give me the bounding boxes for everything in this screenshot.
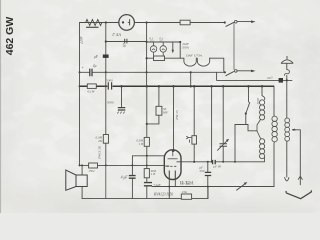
capacitor C3 (smoothing): [103, 55, 109, 58]
choke L1 hump 1: [184, 58, 196, 66]
svg-text:5000: 5000: [106, 79, 113, 83]
wire: mains cord lead (bottom): [237, 70, 251, 72]
svg-text:AW: AW: [148, 40, 154, 44]
svg-text:5000: 5000: [107, 101, 114, 105]
wire: band switch drop: [248, 86, 250, 102]
wire: AF cap branch: [131, 156, 133, 199]
capacitor C1 (series, filament tap): [125, 39, 127, 44]
antenna (light-antenna dome): [281, 56, 293, 63]
wire: lamp block top: [147, 41, 181, 43]
coil L4 winding: [285, 118, 290, 141]
svg-text:μF 90: μF 90: [213, 165, 221, 169]
wire: filament tap: [106, 41, 147, 43]
svg-text:1 B: 1 B: [139, 142, 143, 146]
svg-text:4 μF: 4 μF: [121, 176, 128, 180]
capacitor C12 (bypass): [205, 172, 211, 175]
wire: bypass cap branch: [207, 162, 209, 199]
svg-text:DAF U73A: DAF U73A: [185, 53, 203, 57]
coil L2 lower winding: [260, 139, 265, 162]
lamp La2: [160, 42, 166, 58]
svg-text:Dẇ: Dẇ: [181, 190, 187, 194]
wire: tuning arm to earth plug: [293, 130, 301, 185]
svg-text:VY 2: VY 2: [112, 32, 122, 37]
wire: node B vertical: [105, 23, 107, 166]
wire: coupling-cap branch: [147, 86, 159, 124]
wire: heater return rail: [80, 71, 225, 73]
antenna socket fork: [285, 177, 289, 181]
svg-text:1 B: 1 B: [151, 172, 155, 176]
resistor R10 (box, speaker line): [89, 163, 98, 168]
wire: coil L3 top lead: [273, 86, 275, 116]
wire: mains top rail (right of VY2): [134, 22, 224, 24]
wire: anode lead to VCL11 top: [173, 86, 175, 150]
wire: node C vertical: [146, 23, 148, 87]
wire: mains cord lead (top): [237, 21, 251, 23]
resistor R4 (box, ground rail): [87, 84, 96, 89]
capacitor C6 (coupling box): [156, 106, 162, 115]
wire: stub to ground capacitor: [121, 86, 123, 107]
junction dots (all nodes): [79, 21, 288, 187]
capacitor C5 + ground: [117, 108, 125, 114]
resistor R5 (box, 0,3M): [103, 135, 108, 144]
svg-text:462 GW: 462 GW: [4, 17, 16, 56]
wire: link to ground rail: [190, 72, 192, 86]
wire: grid-leak chain vertical: [146, 86, 148, 182]
wire: cathode line: [152, 186, 274, 188]
svg-text:/1091: /1091: [181, 46, 190, 50]
choke L1 hump 2: [197, 58, 209, 66]
wire: mains top rail (left of VY2): [80, 22, 119, 24]
resistor R8 (box, cathode): [144, 169, 149, 178]
trimmer capacitor C7: [217, 139, 228, 150]
wire: detector branch: [211, 86, 213, 162]
svg-text:500: 500: [200, 169, 205, 173]
resistor R3 (box, lamp shunt): [154, 56, 165, 61]
earth plug arrow: [298, 176, 302, 179]
resistor R6 (box, grid leak): [144, 137, 149, 146]
wire: antenna feed line: [217, 72, 292, 80]
wire: coil L2 top lead: [261, 86, 263, 96]
svg-text:μμ5: μμ5: [268, 75, 273, 79]
resistor R7 (box) + grid clip: [192, 136, 197, 144]
wire: VCL11 filament leads: [169, 179, 175, 198]
capacitor C11 (series, detector line): [213, 160, 216, 164]
wire: detector line: [181, 161, 265, 163]
capacitor C8 (antenna series, block): [279, 78, 283, 83]
resistor R9 (box, "Dw"): [181, 194, 191, 199]
rectifier tube VY2: [119, 15, 135, 31]
capacitor C9 (AF, 4uF): [129, 176, 136, 179]
svg-text:10-180: 10-180: [181, 181, 190, 185]
switch S1/S2 coupling link: [233, 23, 235, 70]
capacitor C4 (series, rail): [108, 82, 111, 89]
coil L2 section link: [257, 119, 261, 139]
potentiometer arrow (regen control): [236, 184, 245, 191]
earth (wide V symbol): [286, 190, 312, 198]
svg-text:4W: 4W: [98, 139, 103, 143]
wire: tap to coil L2: [235, 125, 257, 131]
svg-text:PW13 5B: PW13 5B: [98, 146, 102, 160]
capacitor C10 (cathode elco): [144, 183, 152, 186]
wire: output/speaker line: [80, 164, 165, 166]
lamp La1: [150, 42, 156, 58]
wire: grid line into VCL11: [132, 155, 164, 157]
svg-text:0W2: 0W2: [89, 169, 95, 173]
switch S2 (mains, bottom pole): [226, 70, 238, 76]
svg-text:BV4123 Ä.50: BV4123 Ä.50: [154, 192, 173, 197]
tube VCL11 (output): [164, 150, 181, 180]
svg-text:5μ: 5μ: [123, 44, 127, 48]
capacitor C2 (electrolytic, series): [90, 69, 92, 77]
wire: speaker leads: [81, 165, 83, 198]
svg-text:00F: 00F: [163, 110, 168, 114]
wire: coil L3 bottom lead: [273, 143, 275, 186]
wire: lamp block bottom / heater feed: [147, 57, 181, 59]
svg-text:220V: 220V: [79, 35, 83, 44]
svg-text:+4μF: +4μF: [153, 183, 162, 187]
antenna lead curl: [285, 70, 290, 76]
wire: antenna column to coil L4: [286, 63, 288, 177]
page edge shadow line: [0, 0, 1, 213]
coil L3 winding: [272, 116, 277, 143]
loudspeaker: [66, 170, 87, 190]
wire: grid resistor branch: [193, 86, 195, 162]
resistor R1 (mains dropper zigzag): [80, 20, 106, 28]
tuning arrow into L4: [292, 129, 296, 131]
coil L2 upper winding: [260, 96, 265, 120]
wire: trimmer branch: [222, 86, 224, 162]
svg-text:4μ: 4μ: [93, 64, 97, 68]
switch S1 (mains, top pole): [226, 20, 238, 26]
wire: chassis bottom rail: [82, 187, 208, 199]
resistor R2 (box, top rail): [180, 20, 190, 25]
wire: lamp block right leg: [179, 42, 181, 58]
switch S3 (band) lever: [246, 102, 250, 113]
wire: HT/ground rail (thick): [80, 85, 275, 87]
svg-text:PW 13: PW 13: [175, 110, 179, 120]
wire: left bus vertical: [79, 23, 81, 166]
wire: tap vertical: [234, 125, 236, 162]
surge arrester arrow: [172, 42, 174, 50]
